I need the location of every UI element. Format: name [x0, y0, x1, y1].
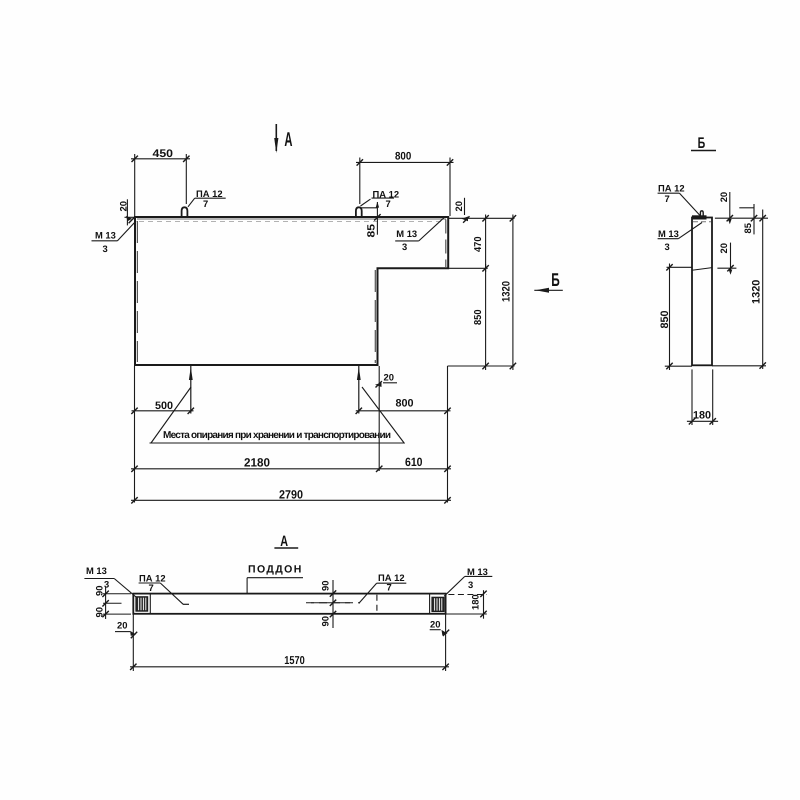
dimension 85 (loop 2)	[360, 207, 378, 209]
loop nub	[700, 211, 703, 216]
bar outline	[692, 218, 712, 366]
section bar outline	[133, 594, 445, 614]
svg-text:610: 610	[405, 455, 423, 469]
svg-text:ПА 12: ПА 12	[658, 183, 685, 194]
svg-text:ПОДДОН: ПОДДОН	[248, 563, 303, 575]
hidden rib line right of left edge	[136, 221, 138, 362]
dimension 180 (side bottom)	[691, 369, 693, 425]
svg-text:М 13: М 13	[396, 228, 417, 239]
lifting loop PA12 no.1	[182, 207, 188, 217]
svg-text:90: 90	[320, 616, 331, 626]
svg-text:1570: 1570	[284, 655, 305, 667]
support arrow right	[358, 366, 360, 414]
dimension 90/90 (section left)	[105, 587, 107, 619]
hidden rib line below top edge	[137, 218, 446, 220]
svg-text:3: 3	[104, 579, 109, 590]
dimension row 500 / 800	[132, 410, 194, 412]
svg-text:20: 20	[718, 192, 729, 202]
svg-text:20: 20	[430, 619, 440, 630]
svg-text:20: 20	[453, 201, 464, 211]
svg-text:90: 90	[94, 607, 105, 617]
svg-text:2790: 2790	[279, 488, 303, 502]
svg-text:7: 7	[386, 198, 391, 209]
svg-text:7: 7	[149, 582, 154, 593]
svg-text:7: 7	[387, 582, 392, 593]
top flange (black)	[692, 215, 707, 219]
step extension line	[446, 267, 488, 269]
svg-text:180: 180	[470, 594, 481, 610]
hidden rib line left of right edge	[445, 220, 447, 268]
dimension row 2180 / 610	[131, 468, 451, 470]
support arrow left	[190, 366, 192, 414]
svg-text:20: 20	[384, 372, 394, 383]
svg-text:180: 180	[693, 410, 711, 422]
svg-text:90: 90	[320, 581, 331, 591]
svg-text:3: 3	[468, 579, 473, 590]
notch trace dashed (section)	[376, 595, 378, 614]
svg-text:20: 20	[718, 243, 729, 253]
extension lines below panel	[134, 366, 136, 503]
svg-text:Б: Б	[698, 135, 706, 152]
svg-text:М 13: М 13	[467, 566, 488, 577]
dimension 1570	[130, 666, 449, 668]
svg-text:20: 20	[117, 620, 127, 631]
dimension 1320 (plan)	[512, 215, 514, 371]
dimension 85 (side)	[739, 207, 754, 209]
svg-text:85: 85	[742, 223, 753, 233]
dimension 1320 (side)	[762, 210, 764, 370]
step line across bar	[692, 268, 712, 271]
dimension 850 (plan)	[485, 264, 487, 370]
lifting loop PA12 no.2	[356, 207, 362, 217]
mesh dash line (section)	[183, 603, 189, 605]
hidden rib line left of notch edge	[374, 270, 376, 363]
bottom extension lines (side)	[665, 365, 692, 367]
svg-text:3: 3	[665, 241, 670, 252]
dimension 90/90 (section middle)	[332, 580, 334, 628]
extension lines for 1570	[132, 614, 134, 671]
bottom-right extension line	[448, 365, 515, 367]
svg-text:470: 470	[473, 236, 484, 252]
washer right (hatched)	[430, 595, 445, 614]
dimension 800 (top)	[356, 158, 454, 217]
svg-text:85: 85	[365, 224, 377, 238]
svg-text:М 13: М 13	[86, 565, 107, 576]
svg-text:850: 850	[659, 311, 671, 329]
dimension 850 (side)	[667, 266, 693, 268]
view arrow A (direction of view)	[274, 124, 278, 153]
dimension 180 (section right)	[448, 594, 486, 596]
svg-text:1320: 1320	[501, 281, 513, 302]
svg-text:1320: 1320	[750, 280, 762, 304]
svg-text:ПА 12: ПА 12	[196, 188, 223, 199]
svg-text:3: 3	[402, 241, 407, 252]
svg-text:7: 7	[665, 193, 670, 204]
svg-text:90: 90	[94, 586, 105, 596]
svg-text:800: 800	[395, 150, 411, 162]
dimension row 2790	[131, 499, 451, 501]
svg-text:А: А	[284, 129, 292, 151]
dimension 470	[485, 215, 487, 273]
svg-text:2180: 2180	[244, 456, 270, 470]
svg-text:7: 7	[203, 198, 208, 209]
svg-text:Б: Б	[551, 269, 560, 290]
svg-text:500: 500	[155, 400, 173, 412]
svg-text:М 13: М 13	[95, 230, 116, 241]
svg-text:Места опирания при хранении и: Места опирания при хранении и транспорти…	[163, 430, 391, 441]
top extension line to right dims	[448, 217, 514, 219]
svg-text:850: 850	[473, 309, 484, 325]
svg-text:800: 800	[396, 398, 414, 410]
svg-text:3: 3	[103, 243, 108, 254]
svg-text:М 13: М 13	[658, 228, 679, 239]
support places leader triangles	[151, 387, 191, 443]
washer left (hatched)	[136, 595, 150, 614]
svg-text:450: 450	[153, 148, 174, 160]
panel outline (plan)	[135, 217, 448, 365]
hidden line below bar top	[693, 221, 711, 223]
top extension line (side)	[715, 217, 768, 219]
dimension 450	[131, 154, 190, 216]
